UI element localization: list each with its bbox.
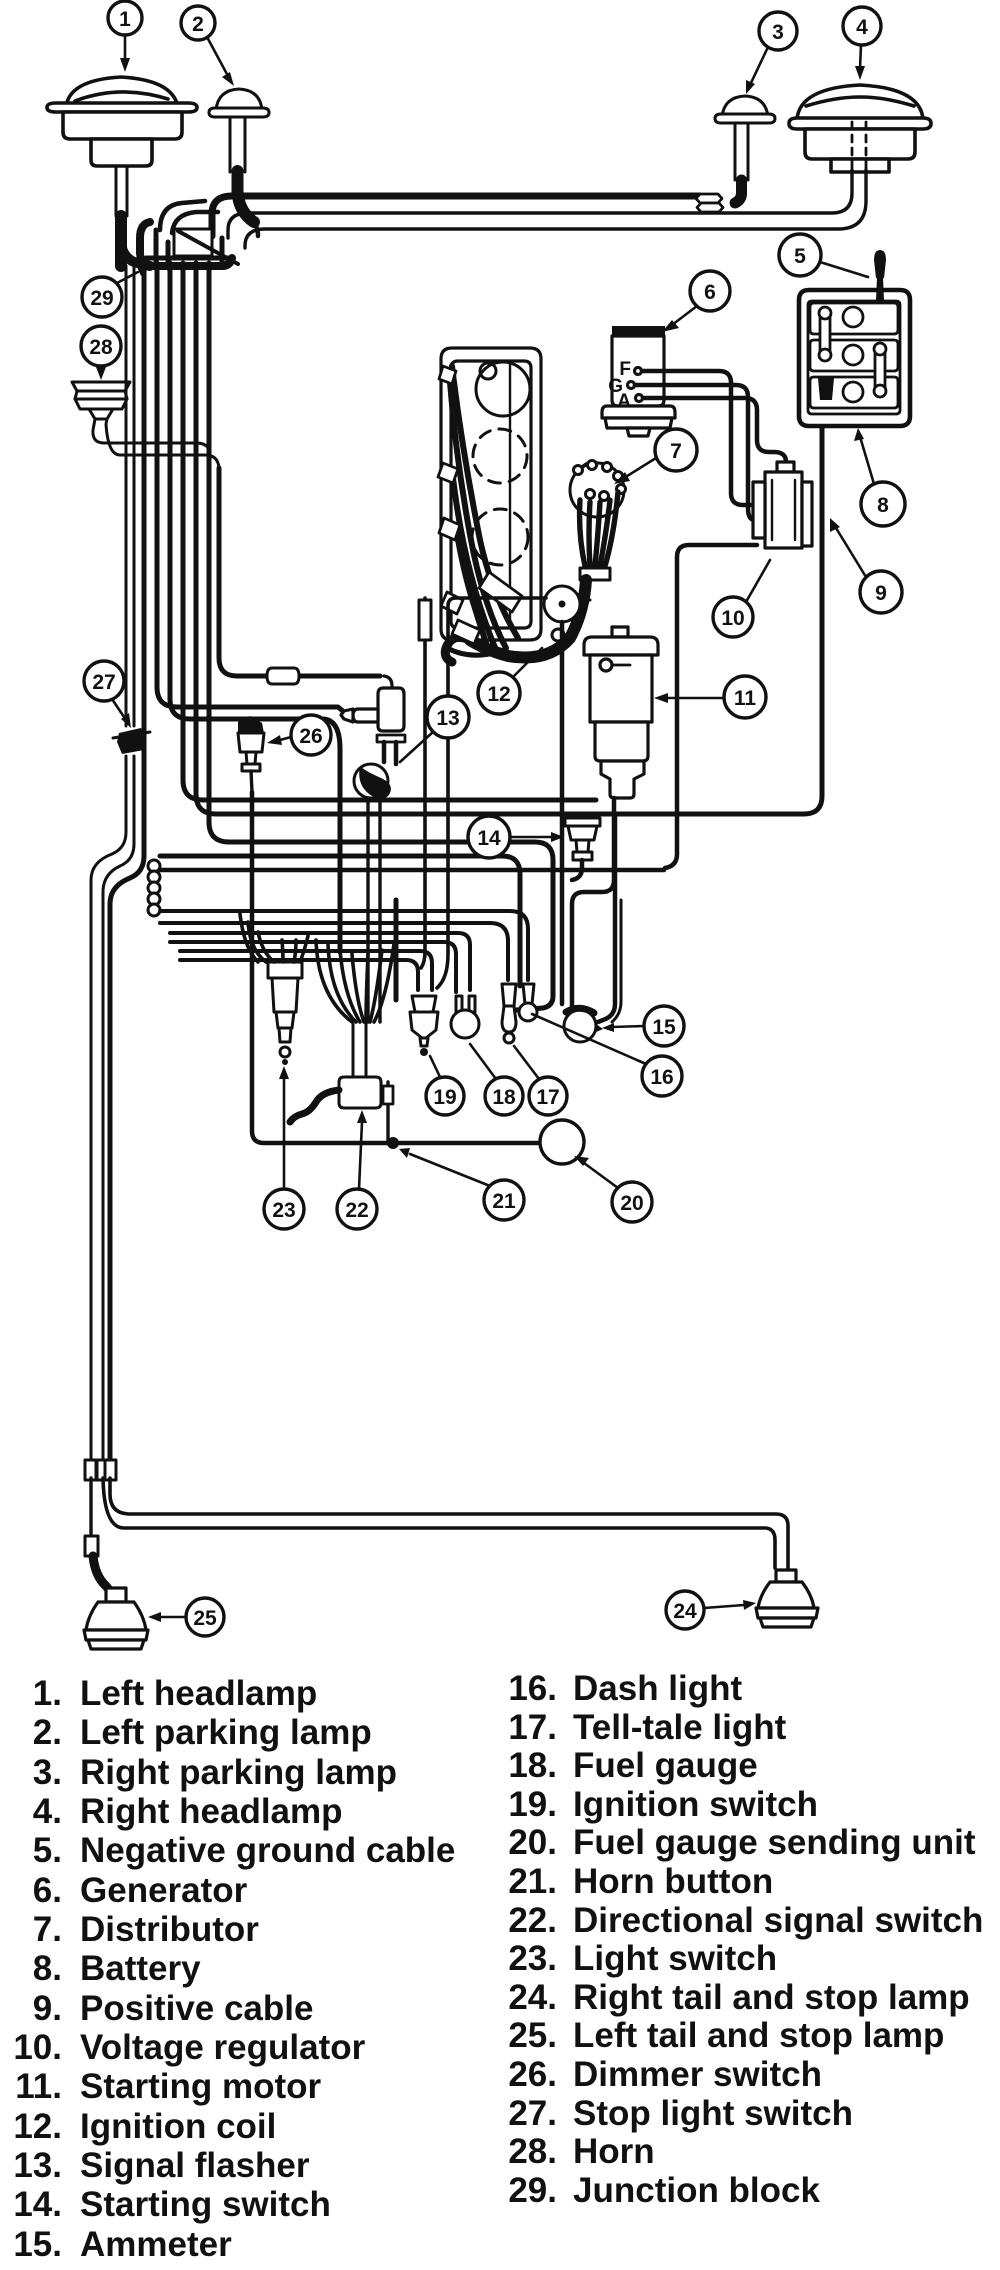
signal switch fan xyxy=(316,940,394,1022)
wire generator A xyxy=(643,398,786,468)
wire right tail run xyxy=(103,1478,788,1568)
wire capsule drop xyxy=(419,598,431,968)
callout 19 xyxy=(426,1056,464,1115)
svg-text:A: A xyxy=(617,391,631,412)
svg-text:11.: 11. xyxy=(15,2067,62,2106)
wire generator F xyxy=(642,371,755,505)
svg-text:13.: 13. xyxy=(13,2146,62,2185)
wire coil to cluster left xyxy=(437,598,546,988)
wire main top harness thick xyxy=(212,196,700,236)
right parking lamp (3) xyxy=(715,96,775,203)
callout 6 xyxy=(662,271,730,332)
callout 16 xyxy=(532,1014,682,1096)
left tail and stop lamp (25) xyxy=(84,1588,148,1649)
svg-text:7: 7 xyxy=(670,440,682,463)
svg-text:17: 17 xyxy=(536,1086,559,1109)
wire sending unit line xyxy=(252,792,554,1149)
svg-text:13: 13 xyxy=(436,707,459,730)
svg-text:10.: 10. xyxy=(13,2028,62,2067)
horn (28) xyxy=(72,382,130,419)
callout 28 xyxy=(81,326,121,380)
svg-text:Ignition coil: Ignition coil xyxy=(80,2107,276,2146)
light switch (23) xyxy=(268,962,302,1065)
svg-text:3.: 3. xyxy=(33,1753,62,1792)
callout 3 xyxy=(746,12,797,94)
svg-text:6: 6 xyxy=(704,281,716,304)
svg-text:18.: 18. xyxy=(508,1746,557,1785)
svg-text:28.: 28. xyxy=(508,2132,557,2171)
svg-text:4.: 4. xyxy=(33,1792,62,1831)
svg-text:Positive cable: Positive cable xyxy=(80,1989,313,2028)
svg-text:18: 18 xyxy=(492,1086,516,1109)
svg-text:9: 9 xyxy=(875,582,887,605)
left headlamp (1) xyxy=(47,77,197,166)
battery cells xyxy=(810,303,898,408)
svg-text:16.: 16. xyxy=(508,1669,557,1708)
svg-text:12.: 12. xyxy=(13,2107,62,2146)
left parking lamp (2) xyxy=(209,89,269,222)
svg-text:24.: 24. xyxy=(508,1978,557,2017)
light switch fan xyxy=(240,914,308,962)
svg-text:Starting motor: Starting motor xyxy=(80,2067,321,2106)
callout 8 xyxy=(854,428,905,526)
ammeter (15) xyxy=(564,1008,603,1042)
svg-text:Ammeter: Ammeter xyxy=(80,2225,232,2264)
spark plug connectors xyxy=(438,366,463,614)
right headlamp (4) xyxy=(789,85,931,172)
wire flasher pair down xyxy=(368,798,396,1022)
wire left tail run xyxy=(85,1478,114,1596)
dash light (16) xyxy=(519,984,537,1021)
battery (8) xyxy=(799,290,910,426)
svg-text:Directional signal switch: Directional signal switch xyxy=(573,1901,983,1940)
callout 12 xyxy=(478,648,542,714)
distributor (7) xyxy=(570,461,626,518)
wire knot curves xyxy=(160,201,258,236)
svg-text:21.: 21. xyxy=(508,1862,557,1901)
wire tail grommets xyxy=(85,1460,116,1480)
voltage regulator (10) xyxy=(753,462,812,548)
svg-text:Generator: Generator xyxy=(80,1871,248,1910)
wire regulator bottom feed xyxy=(665,545,757,868)
svg-text:Left tail and stop lamp: Left tail and stop lamp xyxy=(573,2016,944,2055)
callout 20 xyxy=(574,1156,652,1222)
svg-text:27: 27 xyxy=(92,671,115,694)
distributor loom band xyxy=(580,568,610,580)
svg-text:19.: 19. xyxy=(508,1785,557,1824)
svg-text:Signal flasher: Signal flasher xyxy=(80,2146,310,2185)
svg-text:Horn button: Horn button xyxy=(573,1862,773,1901)
svg-text:2.: 2. xyxy=(33,1713,62,1752)
callout 4 xyxy=(843,7,881,80)
starting motor (11) xyxy=(584,627,658,798)
wire block bottom exit xyxy=(447,648,498,655)
svg-text:23: 23 xyxy=(272,1199,295,1222)
callout 24 xyxy=(666,1591,756,1629)
distributor wires xyxy=(580,492,618,566)
wire comb lines to cluster xyxy=(160,911,528,992)
negative ground cable (5) xyxy=(874,250,886,300)
legend left column xyxy=(13,1674,455,2264)
callout 29 xyxy=(82,266,150,317)
svg-text:28: 28 xyxy=(89,336,113,359)
svg-text:29.: 29. xyxy=(508,2171,557,2210)
wire grommet strip xyxy=(148,860,160,916)
wire connector at parking lamp 3 xyxy=(696,194,723,212)
callout 11 xyxy=(654,676,766,718)
svg-text:20: 20 xyxy=(620,1192,643,1215)
callout 2 xyxy=(181,6,234,86)
wire flasher feed connector xyxy=(267,668,299,684)
callout 21 xyxy=(399,1148,524,1220)
wire battery branch to ammeter xyxy=(598,814,615,1022)
svg-text:25.: 25. xyxy=(508,2016,557,2055)
svg-text:11: 11 xyxy=(734,687,757,710)
callout 23 xyxy=(264,1066,304,1229)
starting switch (14) xyxy=(565,818,600,860)
callout 10 xyxy=(713,560,770,637)
wire regulator-to-dash xyxy=(160,868,664,873)
svg-text:14: 14 xyxy=(477,827,501,850)
svg-text:Left headlamp: Left headlamp xyxy=(80,1674,317,1713)
battery positive post xyxy=(818,378,834,400)
wire coil down to ammeter xyxy=(560,622,565,1004)
svg-text:24: 24 xyxy=(673,1600,697,1623)
svg-text:Dimmer switch: Dimmer switch xyxy=(573,2055,822,2094)
svg-text:Starting switch: Starting switch xyxy=(80,2185,331,2224)
cylinder 2 xyxy=(473,429,527,483)
wire headlamp-1 drop xyxy=(116,166,127,266)
svg-text:5: 5 xyxy=(794,245,806,268)
wire horn to bundle xyxy=(93,419,219,468)
legend right column xyxy=(508,1669,983,2210)
svg-text:15: 15 xyxy=(652,1016,676,1039)
svg-text:10: 10 xyxy=(721,607,744,630)
svg-text:27.: 27. xyxy=(508,2094,557,2133)
svg-text:8: 8 xyxy=(877,494,889,517)
svg-text:26: 26 xyxy=(299,725,322,748)
wire horn button drop xyxy=(383,1082,393,1140)
svg-text:Left parking lamp: Left parking lamp xyxy=(80,1713,372,1752)
wire right headlamp tube xyxy=(228,170,866,248)
callout 13 xyxy=(400,696,469,762)
svg-text:Right headlamp: Right headlamp xyxy=(80,1792,343,1831)
callout 7 xyxy=(614,429,697,484)
svg-text:21: 21 xyxy=(492,1190,516,1213)
svg-text:9.: 9. xyxy=(33,1989,62,2028)
right tail and stop lamp (24) xyxy=(756,1570,818,1627)
svg-text:5.: 5. xyxy=(33,1831,62,1870)
svg-text:22: 22 xyxy=(345,1199,368,1222)
svg-text:Battery: Battery xyxy=(80,1949,201,1988)
svg-text:Tell-tale light: Tell-tale light xyxy=(573,1708,787,1747)
callout 22 xyxy=(337,1110,377,1229)
stop light switch (27) xyxy=(113,728,150,754)
dimmer switch (26) xyxy=(238,716,264,771)
svg-text:Right tail and stop lamp: Right tail and stop lamp xyxy=(573,1978,970,2017)
svg-text:4: 4 xyxy=(856,16,868,39)
svg-text:12: 12 xyxy=(487,683,510,706)
plug wire connectors over loom xyxy=(452,572,522,644)
svg-text:16: 16 xyxy=(650,1066,673,1089)
wire left bundle verticals xyxy=(110,263,822,1462)
svg-text:Fuel gauge: Fuel gauge xyxy=(573,1746,758,1785)
callout 18 xyxy=(470,1044,523,1115)
svg-text:Fuel gauge sending unit: Fuel gauge sending unit xyxy=(573,1823,976,1862)
engine block xyxy=(441,348,541,640)
callout 15 xyxy=(602,1006,684,1046)
callout 17 xyxy=(514,1046,567,1115)
svg-text:19: 19 xyxy=(433,1086,456,1109)
callout 1 xyxy=(108,1,142,72)
svg-text:3: 3 xyxy=(772,21,784,44)
svg-text:25: 25 xyxy=(193,1607,217,1630)
directional signal switch (22) xyxy=(290,1024,381,1122)
svg-text:14.: 14. xyxy=(13,2185,62,2224)
wire dimmer stem xyxy=(251,771,252,792)
svg-text:8.: 8. xyxy=(33,1949,62,1988)
wire motor bottom xyxy=(572,798,614,1006)
cylinder 3 xyxy=(472,509,528,565)
svg-text:Distributor: Distributor xyxy=(80,1910,259,1949)
signal flasher (13) xyxy=(341,676,405,742)
ignition switch (19) xyxy=(410,996,438,1056)
svg-text:6.: 6. xyxy=(33,1871,62,1910)
callout 14 xyxy=(468,816,564,858)
svg-text:1: 1 xyxy=(119,8,131,31)
svg-text:Light switch: Light switch xyxy=(573,1939,777,1978)
callout 5 xyxy=(779,234,868,277)
svg-text:7.: 7. xyxy=(33,1910,62,1949)
wire generator G xyxy=(635,385,755,520)
svg-text:Stop light switch: Stop light switch xyxy=(573,2094,853,2133)
spark plug wires xyxy=(450,366,518,652)
svg-text:17.: 17. xyxy=(508,1708,557,1747)
tell-tale light (17) xyxy=(502,984,516,1043)
svg-text:Horn: Horn xyxy=(573,2132,655,2171)
wire flasher grommet xyxy=(354,742,396,798)
svg-text:1.: 1. xyxy=(33,1674,62,1713)
junction block (29) xyxy=(121,222,238,268)
svg-text:29: 29 xyxy=(90,287,113,310)
svg-text:Negative ground cable: Negative ground cable xyxy=(80,1831,455,1870)
svg-text:2: 2 xyxy=(192,13,204,36)
fuel gauge (18) xyxy=(451,996,479,1038)
wire switch drop xyxy=(572,860,582,880)
distributor loom xyxy=(470,580,586,658)
svg-text:Ignition switch: Ignition switch xyxy=(573,1785,818,1824)
svg-text:20.: 20. xyxy=(508,1823,557,1862)
generator (6) xyxy=(602,326,675,436)
fuel gauge sending unit (20) xyxy=(540,1120,584,1164)
svg-text:22.: 22. xyxy=(508,1901,557,1940)
callout 9 xyxy=(830,518,902,613)
callout 26 xyxy=(267,715,331,755)
callout 27 xyxy=(84,661,131,728)
callout 25 xyxy=(148,1598,224,1636)
svg-text:23.: 23. xyxy=(508,1939,557,1978)
svg-text:15.: 15. xyxy=(13,2225,62,2264)
svg-text:26.: 26. xyxy=(508,2055,557,2094)
svg-text:Right parking lamp: Right parking lamp xyxy=(80,1753,397,1792)
ignition coil (12) xyxy=(544,586,590,641)
svg-text:Dash light: Dash light xyxy=(573,1669,743,1708)
svg-text:Voltage regulator: Voltage regulator xyxy=(80,2028,366,2067)
svg-text:Junction block: Junction block xyxy=(573,2171,821,2210)
wire tail pair from junction xyxy=(91,266,134,1462)
cylinder 1 xyxy=(476,362,530,416)
